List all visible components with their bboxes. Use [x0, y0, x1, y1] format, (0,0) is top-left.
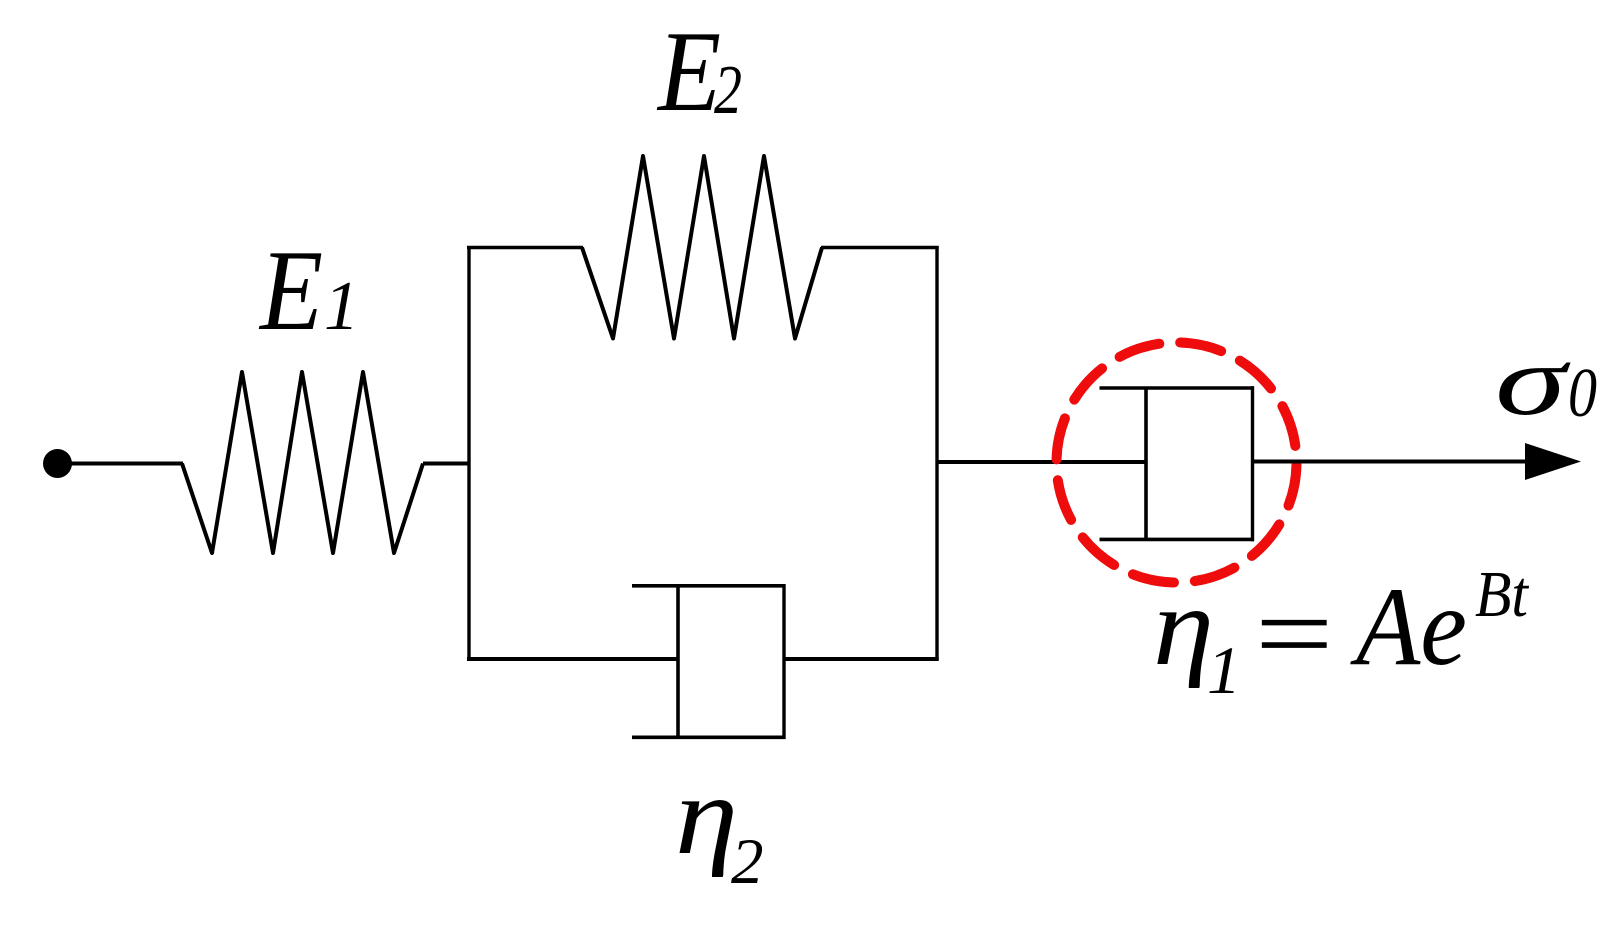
wire (dashpot eta1 rod to arrow, output)	[1253, 460, 1531, 464]
dashpot eta1 cylinder bottom wall	[1100, 538, 1255, 542]
svg-text:η: η	[675, 754, 738, 878]
dashpot eta1 cylinder right wall	[1251, 386, 1254, 541]
node A (input terminal dot)	[43, 449, 72, 478]
dashpot eta2 piston plate	[676, 585, 680, 738]
svg-text:2: 2	[714, 52, 742, 129]
svg-text:Ae: Ae	[1349, 565, 1467, 689]
arrowhead of output force arrow	[1525, 443, 1581, 480]
spring E1	[182, 372, 423, 553]
spring E2	[582, 156, 822, 339]
red dashed highlight circle around dashpot eta1	[1057, 343, 1297, 583]
svg-text:1: 1	[1207, 632, 1241, 708]
svg-text:E: E	[656, 8, 721, 135]
dashpot eta2 cylinder bottom wall	[632, 735, 786, 739]
wire (top edge left segment)	[467, 246, 583, 249]
svg-text:2: 2	[731, 826, 764, 898]
wire (parallel box right edge)	[935, 246, 938, 661]
svg-text:0: 0	[1568, 355, 1597, 432]
dashpot eta1 piston plate	[1144, 388, 1148, 541]
wire (dashpot eta2 rod to box right edge)	[784, 657, 939, 661]
svg-text:1: 1	[324, 268, 359, 345]
dashpot eta2 cylinder top wall	[632, 584, 786, 588]
svg-text:σ: σ	[1495, 325, 1571, 436]
wire (spring E1 to parallel box)	[423, 462, 470, 466]
svg-text:Bt: Bt	[1475, 558, 1529, 631]
wire (box right edge to dashpot eta1 piston)	[937, 460, 1147, 464]
wire (parallel box left edge)	[467, 246, 470, 661]
wire (node to spring E1)	[60, 462, 183, 466]
wire (top edge right segment)	[821, 246, 939, 249]
svg-text:=: =	[1246, 572, 1340, 696]
dashpot eta1 cylinder top wall	[1100, 386, 1255, 390]
svg-text:η: η	[1153, 565, 1214, 689]
svg-text:E: E	[258, 227, 323, 354]
dashpot eta2 cylinder right wall	[782, 584, 785, 739]
wire (bottom edge left segment to dashpot piston)	[467, 657, 679, 661]
